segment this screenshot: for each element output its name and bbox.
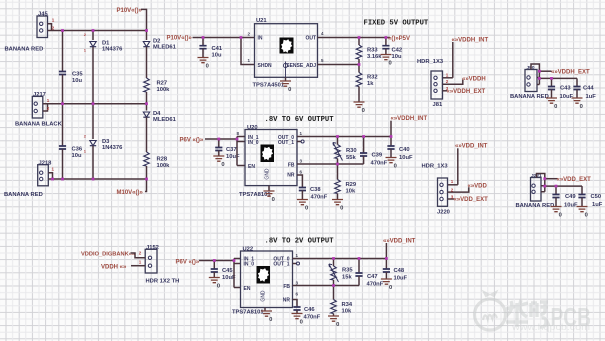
svg-text:1N4376: 1N4376 <box>102 145 123 151</box>
svg-text:R35: R35 <box>342 268 353 274</box>
svg-text:C46: C46 <box>304 307 315 313</box>
svg-text:«»VDDH_EXT: «»VDDH_EXT <box>551 70 590 76</box>
svg-text:10k: 10k <box>346 188 356 194</box>
svg-text:C37: C37 <box>226 147 237 153</box>
svg-text:OUT_1: OUT_1 <box>278 140 294 146</box>
svg-text:100k: 100k <box>157 163 171 169</box>
svg-text:0: 0 <box>269 317 272 323</box>
svg-text:0: 0 <box>580 104 583 110</box>
svg-text:0: 0 <box>300 320 303 326</box>
svg-text:C41: C41 <box>212 46 223 52</box>
svg-text:0: 0 <box>389 285 392 291</box>
svg-text:10uF: 10uF <box>564 202 578 208</box>
svg-text:0: 0 <box>221 162 224 168</box>
svg-text:1uF: 1uF <box>592 202 603 208</box>
svg-text:1k: 1k <box>367 81 374 87</box>
svg-text:MLED61: MLED61 <box>153 44 177 50</box>
svg-text:0: 0 <box>272 197 275 203</box>
svg-text:«»VDD_EXT: «»VDD_EXT <box>454 197 489 203</box>
svg-text:SHDN: SHDN <box>258 63 273 69</box>
svg-text:«»VDDH_INT: «»VDDH_INT <box>452 37 489 43</box>
svg-text:R28: R28 <box>157 156 168 162</box>
svg-text:BANANA RED: BANANA RED <box>510 94 549 100</box>
svg-text:NR: NR <box>283 298 291 304</box>
svg-text:U22: U22 <box>243 246 254 252</box>
svg-text:0: 0 <box>288 87 291 93</box>
svg-text:IN_0: IN_0 <box>244 262 255 268</box>
svg-text:BANANA RED: BANANA RED <box>4 192 43 198</box>
svg-text:NR: NR <box>287 172 295 178</box>
svg-text:3.16k: 3.16k <box>367 54 382 60</box>
svg-text:FB: FB <box>288 162 295 168</box>
svg-text:P6V «()»: P6V «()» <box>180 138 204 144</box>
svg-text:10uF: 10uF <box>560 94 574 100</box>
svg-text:R32: R32 <box>367 74 378 80</box>
svg-text:MLED61: MLED61 <box>153 117 177 123</box>
svg-text:U21: U21 <box>256 18 267 24</box>
svg-text:C38: C38 <box>310 187 321 193</box>
svg-text:J81: J81 <box>433 102 443 108</box>
svg-text:«»VDD: «»VDD <box>468 184 488 190</box>
svg-text:FIXED 5V OUTPUT: FIXED 5V OUTPUT <box>364 19 429 27</box>
svg-text:HDR 1X2 TH: HDR 1X2 TH <box>146 279 180 285</box>
svg-text:J220: J220 <box>437 210 450 216</box>
svg-text:C49: C49 <box>565 194 576 200</box>
svg-text:470nF: 470nF <box>304 315 321 321</box>
svg-text:J152: J152 <box>146 245 159 251</box>
svg-text:HDR_1X3: HDR_1X3 <box>422 163 449 169</box>
svg-text:0: 0 <box>389 61 392 67</box>
svg-text:R29: R29 <box>346 182 357 188</box>
svg-text:C39: C39 <box>372 152 383 158</box>
svg-text:GND: GND <box>261 290 267 302</box>
svg-text:OUT_1: OUT_1 <box>273 262 289 268</box>
svg-text:U20: U20 <box>247 125 258 131</box>
svg-text:R33: R33 <box>367 47 378 53</box>
svg-text:P6V «()»: P6V «()» <box>176 260 200 266</box>
svg-text:10uF: 10uF <box>226 154 240 160</box>
svg-text:0: 0 <box>554 104 557 110</box>
svg-text:470nF: 470nF <box>311 195 328 201</box>
svg-text:R30: R30 <box>346 148 357 154</box>
svg-text:55k: 55k <box>346 155 356 161</box>
svg-text:«»VDD_INT: «»VDD_INT <box>455 144 488 150</box>
svg-text:10u: 10u <box>212 52 222 58</box>
svg-text:C47: C47 <box>367 274 378 280</box>
svg-text:EN: EN <box>244 286 251 292</box>
svg-text:TPS7A8101: TPS7A8101 <box>239 192 271 198</box>
svg-text:C35: C35 <box>72 71 83 77</box>
svg-text:1uF: 1uF <box>586 94 597 100</box>
svg-text:«»VDD_INT: «»VDD_INT <box>383 238 416 244</box>
svg-text:«»VDDH_EXT: «»VDDH_EXT <box>447 89 486 95</box>
svg-text:BANANA BLACK: BANANA BLACK <box>15 122 63 128</box>
svg-text:1N4376: 1N4376 <box>102 46 123 52</box>
svg-text:0: 0 <box>559 213 562 219</box>
svg-text:0: 0 <box>305 206 308 212</box>
svg-text:C42: C42 <box>392 47 403 53</box>
svg-text:0: 0 <box>206 64 209 70</box>
svg-text:0: 0 <box>336 322 339 328</box>
svg-text:BANANA RED: BANANA RED <box>516 203 555 209</box>
svg-text:«»VDDH_INT: «»VDDH_INT <box>391 116 428 122</box>
svg-text:OUT: OUT <box>305 35 316 41</box>
svg-text:«»VDD_EXT: «»VDD_EXT <box>557 177 592 183</box>
svg-text:R34: R34 <box>342 302 353 308</box>
svg-text:BANANA RED: BANANA RED <box>5 46 44 52</box>
svg-text:«»VDDH: «»VDDH <box>462 76 486 82</box>
svg-text:10k: 10k <box>342 308 352 314</box>
svg-text:C43: C43 <box>560 85 571 91</box>
svg-text:J217: J217 <box>33 92 46 98</box>
svg-text:C45: C45 <box>222 268 233 274</box>
svg-text:C40: C40 <box>399 147 410 153</box>
svg-text:P10V«()»: P10V«()» <box>167 36 193 42</box>
svg-text:10uF: 10uF <box>399 155 413 161</box>
svg-text:15k: 15k <box>342 274 352 280</box>
svg-text:C50: C50 <box>591 194 602 200</box>
svg-text:IN: IN <box>258 35 263 41</box>
svg-text:EN: EN <box>248 164 255 170</box>
svg-text:SENSE_ADJ: SENSE_ADJ <box>286 63 316 69</box>
svg-text:TPS7A4501: TPS7A4501 <box>253 83 285 89</box>
svg-text:VDDH «»: VDDH «» <box>101 265 127 271</box>
svg-text:IN_0: IN_0 <box>248 140 259 146</box>
svg-text:10u: 10u <box>72 153 82 159</box>
svg-text:0: 0 <box>362 108 365 114</box>
svg-text:M10V«()»: M10V«()» <box>117 190 144 196</box>
svg-text:J218: J218 <box>39 160 53 166</box>
svg-text:FB: FB <box>283 284 290 290</box>
svg-text:10uF: 10uF <box>394 275 408 281</box>
svg-text:0: 0 <box>585 213 588 219</box>
svg-text:C36: C36 <box>72 146 83 152</box>
svg-text:10u: 10u <box>72 78 82 84</box>
svg-text:VDDIO_DIGBANK«»: VDDIO_DIGBANK«» <box>81 252 135 258</box>
svg-text:10u: 10u <box>392 54 402 60</box>
svg-text:GND: GND <box>265 168 271 180</box>
svg-text:www.hqpcb.com: www.hqpcb.com <box>511 322 590 333</box>
svg-text:0: 0 <box>394 164 397 170</box>
svg-text:R27: R27 <box>157 80 168 86</box>
svg-text:0: 0 <box>340 206 343 212</box>
svg-text:HDR_1X3: HDR_1X3 <box>417 59 444 65</box>
svg-text:C44: C44 <box>583 85 594 91</box>
svg-text:470nF: 470nF <box>371 160 388 166</box>
svg-text:0: 0 <box>217 284 220 290</box>
svg-text:P10V«()»: P10V«()» <box>117 8 143 14</box>
svg-text:«()»P5V: «()»P5V <box>388 36 410 42</box>
svg-text:J45: J45 <box>38 12 48 18</box>
svg-text:.8V TO 6V OUTPUT: .8V TO 6V OUTPUT <box>265 116 335 124</box>
svg-text:100k: 100k <box>157 87 171 93</box>
svg-text:470nF: 470nF <box>367 282 384 288</box>
svg-text:.8V TO 2V OUTPUT: .8V TO 2V OUTPUT <box>265 237 335 245</box>
svg-text:C48: C48 <box>394 268 405 274</box>
svg-text:TPS7A8101: TPS7A8101 <box>232 310 264 316</box>
